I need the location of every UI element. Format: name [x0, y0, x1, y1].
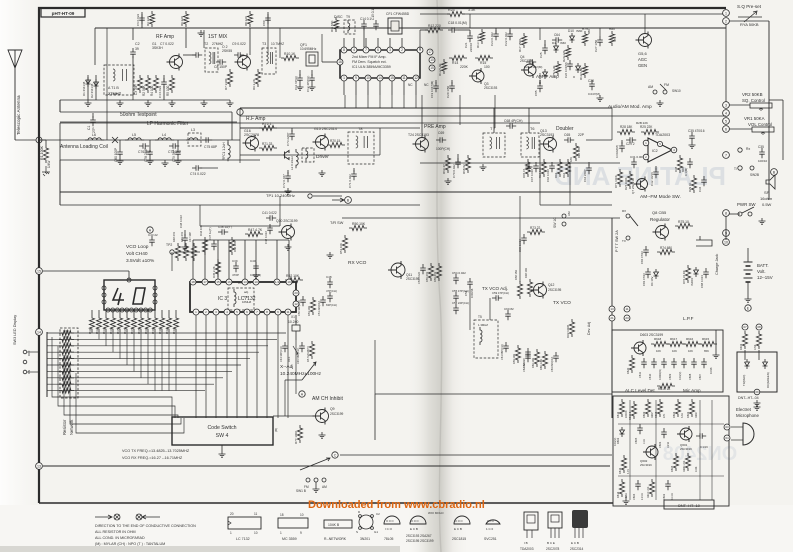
svg-text:A T1 B: A T1 B [108, 86, 119, 90]
capacitor C26 0.01M [567, 60, 573, 70]
resistor R29 1K [691, 175, 696, 193]
svg-text:R14: R14 [452, 61, 458, 65]
svg-text:RYA 50KB: RYA 50KB [740, 22, 759, 27]
capacitor C80 100P [119, 140, 121, 148]
svg-text:12: 12 [414, 76, 418, 80]
svg-text:R76 33 D9: R76 33 D9 [682, 270, 686, 284]
coil L6 [85, 138, 104, 140]
battery symbol [744, 261, 753, 263]
svg-text:9: 9 [355, 76, 357, 80]
svg-text:C71 0.022: C71 0.022 [348, 174, 352, 188]
svg-text:S.Q Pre-set: S.Q Pre-set [737, 4, 762, 9]
svg-text:ALC Level Det.: ALC Level Det. [625, 388, 656, 393]
svg-text:TX VCO: TX VCO [553, 300, 571, 306]
ground code switch [221, 445, 223, 451]
capacitor C39 470P [233, 262, 239, 272]
svg-text:08: 08 [757, 325, 761, 329]
svg-text:2SK55: 2SK55 [222, 49, 232, 53]
node 1 connector [723, 10, 730, 17]
svg-text:C22 0.022: C22 0.022 [504, 32, 508, 46]
svg-text:R.F Amp: R.F Amp [246, 116, 266, 122]
svg-text:C611: C611 [638, 371, 642, 378]
IC1 top pins [341, 47, 347, 53]
svg-text:Volt.: Volt. [757, 269, 766, 274]
svg-text:C19 0.047(M): C19 0.047(M) [430, 81, 434, 98]
svg-text:C8 150P: C8 150P [214, 65, 228, 69]
svg-text:Doubler: Doubler [556, 126, 574, 132]
resistor R27 100K [627, 171, 632, 189]
capacitor C19 0.047M [435, 80, 437, 84]
diode zener D [576, 63, 581, 73]
resistor R45 2.2K [215, 259, 220, 277]
svg-text:D5 SVC25(Y): D5 SVC25(Y) [306, 346, 310, 362]
capacitor C12 4P [311, 70, 313, 76]
transformer T2 27MHZ [205, 48, 218, 72]
svg-text:C68 4P(CH): C68 4P(CH) [504, 119, 522, 123]
svg-text:R403: R403 [739, 343, 743, 350]
svg-text:1: 1 [343, 76, 345, 80]
svg-text:C45 56P(CH ): C45 56P(CH ) [296, 348, 300, 364]
svg-text:R23: R23 [448, 8, 455, 12]
svg-text:OFF: OFF [27, 350, 31, 356]
capacitor C74 0.022 [192, 165, 202, 171]
svg-text:1ST MIX: 1ST MIX [208, 34, 228, 40]
svg-text:R62: R62 [562, 172, 566, 178]
svg-text:G5,6: G5,6 [638, 51, 647, 56]
svg-text:R27 100K: R27 100K [624, 177, 628, 190]
svg-text:2SC3193: 2SC3193 [540, 133, 554, 137]
svg-text:C43 22: C43 22 [148, 233, 158, 237]
svg-text:27P: 27P [92, 127, 96, 133]
svg-text:X1: X1 [291, 315, 295, 319]
svg-text:C11 6P(H): C11 6P(H) [294, 76, 298, 90]
svg-text:16: 16 [227, 280, 231, 284]
svg-text:R29 1K: R29 1K [688, 183, 692, 192]
node A2 [299, 391, 305, 397]
svg-text:0.1/16: 0.1/16 [700, 445, 708, 449]
svg-text:C72 0.047: C72 0.047 [282, 174, 286, 188]
svg-text:27MHZ: 27MHZ [108, 91, 122, 96]
capacitor C75 68P [202, 137, 212, 143]
svg-text:R606 1.5K: R606 1.5K [683, 460, 686, 472]
svg-text:MC 3559: MC 3559 [282, 537, 297, 541]
svg-text:Regulator: Regulator [650, 217, 670, 222]
varicap cluster R48 R49 C47 [175, 243, 180, 261]
svg-text:R6 220: R6 220 [180, 16, 184, 26]
capacitor C70 0.022 [455, 158, 461, 168]
svg-text:13: 13 [610, 307, 614, 311]
node 7 connector [723, 152, 730, 159]
svg-text:14: 14 [378, 76, 382, 80]
LPF block box [612, 330, 723, 392]
svg-text:C62 220: C62 220 [522, 362, 526, 372]
svg-text:AM: AM [648, 85, 653, 89]
svg-text:C28: C28 [588, 79, 594, 83]
svg-text:15: 15 [37, 269, 41, 273]
svg-text:R8 220: R8 220 [244, 16, 248, 26]
wire battery [725, 216, 727, 240]
svg-text:Q10 2SC3199: Q10 2SC3199 [276, 219, 298, 223]
svg-text:2SC2078: 2SC2078 [546, 547, 560, 551]
svg-text:TX: TX [622, 239, 626, 243]
svg-text:100K: 100K [63, 335, 69, 339]
svg-text:C47 39P: C47 39P [188, 232, 192, 242]
resistor R68 82 [465, 155, 470, 173]
svg-text:47K: 47K [613, 37, 617, 42]
capacitor C72 0.047 [287, 170, 289, 174]
node antenna feed [36, 137, 42, 143]
svg-text:C60 82: C60 82 [504, 307, 514, 311]
svg-text:AM: AM [567, 211, 571, 216]
capacitor C49 63P [327, 292, 333, 302]
svg-text:0.01(M): 0.01(M) [679, 372, 682, 380]
svg-text:R26 18K: R26 18K [577, 147, 581, 158]
svg-text:AM: AM [322, 485, 327, 489]
svg-text:C603: C603 [658, 441, 662, 448]
capacitor C59 47P [492, 295, 502, 301]
svg-text:R12 220: R12 220 [428, 24, 441, 28]
svg-text:L4: L4 [162, 133, 166, 137]
bottom mic parts [619, 479, 624, 497]
svg-text:6.8K: 6.8K [625, 493, 628, 498]
RX VCO adj box T4 [228, 288, 254, 310]
svg-text:3.3K: 3.3K [681, 413, 684, 418]
resistor R9 2.2K [255, 69, 260, 87]
package LC7132 [228, 517, 261, 529]
capacitor C601 [696, 433, 706, 439]
svg-text:T24 2SC3193: T24 2SC3193 [408, 133, 429, 137]
capacitor C4 0.022 [161, 78, 167, 88]
node B arrow [345, 197, 352, 204]
svg-text:R58 15K: R58 15K [514, 270, 518, 280]
diode D4 IN60 [554, 43, 559, 53]
IC3 LC7132 body [190, 282, 296, 312]
svg-text:Volt CH40: Volt CH40 [126, 251, 148, 257]
mic block inner wires [618, 423, 724, 425]
svg-text:20: 20 [230, 512, 234, 516]
VR1 pot [752, 127, 774, 132]
svg-text:16: 16 [338, 60, 342, 64]
svg-text:C31 0.001: C31 0.001 [630, 155, 644, 159]
resistor R73 22 [527, 229, 545, 234]
capacitor C23 0.022 [493, 30, 499, 40]
microphone symbol [743, 423, 754, 445]
svg-text:Telescopic Antenna: Telescopic Antenna [16, 95, 21, 135]
IC1 bottom pins [341, 75, 347, 81]
svg-text:R13 3.3K: R13 3.3K [476, 35, 480, 48]
svg-text:RY1 100K: RY1 100K [614, 175, 618, 188]
code switch SW4 box [172, 417, 273, 445]
resistor R13b 5.6K [441, 59, 446, 74]
svg-text:C607: C607 [698, 373, 702, 380]
svg-text:C74 0.022: C74 0.022 [190, 172, 206, 176]
svg-text:O O O: O O O [386, 519, 394, 523]
svg-text:65K: 65K [704, 349, 709, 353]
svg-text:FM Dem. Squelch ect.: FM Dem. Squelch ect. [352, 60, 387, 64]
svg-text:C38 0.022: C38 0.022 [179, 215, 183, 228]
resistor R8 220 [247, 11, 252, 27]
svg-text:50ohm Testpoint: 50ohm Testpoint [120, 112, 157, 118]
capacitor C77 39P [169, 143, 179, 149]
svg-text:R603: R603 [686, 411, 690, 418]
svg-text:47P(CH): 47P(CH) [326, 289, 337, 293]
svg-text:E C B: E C B [410, 527, 418, 531]
capacitor C73 220P [291, 128, 293, 132]
svg-text:4.7K: 4.7K [627, 469, 630, 474]
resistor R44 10K [202, 237, 207, 255]
VR2 pot [729, 104, 750, 106]
transistor G5,6 AGC [639, 34, 652, 47]
capacitor C53 0.022 [420, 264, 426, 274]
wire preamp verticals [421, 108, 423, 137]
svg-text:C70 0.022: C70 0.022 [452, 164, 456, 178]
resistor R69 47 [445, 155, 450, 173]
wire band2 rails [240, 107, 612, 109]
svg-text:C39: C39 [232, 259, 238, 263]
svg-text:10: 10 [300, 513, 304, 517]
svg-text:SP: SP [764, 190, 770, 195]
svg-text:VCO RX FREQ.=16.27 --16.71MH: VCO RX FREQ.=16.27 --16.71MHZ [122, 456, 183, 460]
svg-text:T6: T6 [530, 127, 534, 131]
svg-text:470P: 470P [232, 273, 239, 277]
transistor Q13 2SC3193 doubler [544, 138, 557, 151]
svg-text:C59 47P(CH): C59 47P(CH) [492, 291, 509, 295]
svg-text:R74 680: R74 680 [660, 246, 672, 250]
svg-text:R610 1.5K: R610 1.5K [647, 486, 650, 498]
capacitor C55 47P [453, 292, 459, 302]
capacitor C41 0.022 [266, 215, 276, 221]
resistor R14 220K [449, 55, 467, 60]
ground rail front end [60, 99, 230, 101]
svg-text:DNT--HT--10: DNT--HT--10 [678, 504, 700, 508]
resistor R7 330K [227, 69, 232, 87]
matrix horizontal wires [47, 332, 286, 334]
svg-text:C65: C65 [564, 133, 570, 137]
svg-text:R65 47: R65 47 [522, 169, 526, 178]
capacitor C82 47/16 [643, 246, 649, 256]
svg-text:3.5Volt ±10%: 3.5Volt ±10% [126, 258, 155, 264]
svg-text:100: 100 [484, 65, 490, 69]
svg-text:3.5K: 3.5K [753, 344, 757, 350]
svg-text:09: 09 [755, 390, 759, 394]
svg-text:13: 13 [37, 464, 41, 468]
svg-text:3: 3 [725, 103, 727, 107]
svg-text:R607: R607 [651, 412, 654, 418]
transistor G15 2SC2314 driver [316, 136, 329, 149]
svg-text:0.0022(M): 0.0022(M) [659, 369, 662, 380]
svg-text:O O O: O O O [487, 520, 494, 523]
svg-text:R602: R602 [695, 412, 698, 418]
svg-text:adj.: adj. [244, 290, 249, 294]
capacitor C35b 100/10 [759, 148, 765, 158]
svg-text:R52 10K: R52 10K [286, 274, 300, 278]
svg-text:2: 2 [401, 48, 403, 52]
svg-text:R80: R80 [609, 27, 615, 31]
capacitor C65 22P [564, 137, 574, 143]
svg-text:R--NETWORK: R--NETWORK [324, 537, 347, 541]
wire IF rail [280, 27, 540, 29]
mic bias parts [621, 455, 626, 473]
resistor R17 150K [521, 33, 526, 48]
node E [745, 305, 751, 311]
capacitor C605 [637, 424, 643, 434]
svg-text:D1 IN4148: D1 IN4148 [82, 81, 86, 96]
svg-text:18: 18 [191, 280, 195, 284]
svg-text:11: 11 [254, 512, 258, 516]
IC3 top pins [190, 279, 196, 285]
svg-text:ALL COND. IN MICROFARAD: ALL COND. IN MICROFARAD [95, 536, 145, 540]
svg-text:C9 0.022: C9 0.022 [232, 42, 246, 46]
svg-text:D10: D10 [568, 29, 574, 33]
svg-text:C: C [334, 453, 337, 457]
ground q10 [327, 252, 334, 258]
svg-text:C21: C21 [464, 42, 468, 48]
svg-text:C61 68P(CH): C61 68P(CH) [500, 344, 504, 360]
svg-text:TDA2003: TDA2003 [520, 547, 534, 551]
svg-text:Microphone: Microphone [736, 413, 759, 418]
capacitor C78 220P [149, 140, 151, 148]
svg-text:13: 13 [243, 280, 247, 284]
resistor R2 56K [145, 75, 150, 93]
svg-text:AM--FM Mode SW.: AM--FM Mode SW. [640, 194, 681, 200]
svg-text:100K: 100K [63, 348, 69, 352]
transistor Q4 2SC3193 [524, 64, 536, 76]
svg-text:C605: C605 [634, 437, 638, 444]
svg-text:R38: R38 [674, 166, 678, 172]
svg-text:C82 47/16: C82 47/16 [640, 251, 644, 264]
svg-text:T/R SW: T/R SW [330, 221, 344, 225]
capacitor C30 10/16 [521, 234, 527, 244]
resistor R77 100K [297, 425, 302, 443]
svg-text:VCO TX FREQ.=13.4825--13.702: VCO TX FREQ.=13.4825--13.7025MHZ [122, 449, 190, 453]
svg-text:Downloaded from www.cbradio.nl: Downloaded from www.cbradio.nl [308, 499, 485, 511]
svg-text:Q12: Q12 [548, 283, 555, 287]
capacitor C64b [552, 37, 562, 43]
svg-text:R4 100: R4 100 [150, 85, 154, 96]
svg-text:C24 0.022(M): C24 0.022(M) [524, 65, 542, 69]
pot RY1 100K [617, 169, 622, 187]
svg-text:6: 6 [377, 48, 379, 52]
matrix vertical wires from resistors [91, 332, 93, 333]
coil L3 box [188, 133, 201, 146]
svg-text:C40: C40 [250, 259, 256, 263]
resistor R50 10K [349, 225, 367, 230]
svg-text:C83 47/16: C83 47/16 [642, 273, 646, 286]
svg-text:C14 0.1: C14 0.1 [360, 17, 371, 21]
svg-text:SW 1C: SW 1C [553, 217, 557, 228]
transistor Q14 2SC3193 pre amp [416, 138, 429, 151]
svg-text:O O O: O O O [411, 519, 419, 523]
svg-text:IN60: IN60 [560, 41, 566, 45]
svg-text:TX(RED): TX(RED) [742, 375, 746, 386]
svg-text:R77 100K: R77 100K [294, 431, 298, 444]
svg-text:(M) : MYLAR (CH) : NPO (: (M) : MYLAR (CH) : NPO (T ) : TANTALUM [95, 542, 165, 546]
svg-text:1: 1 [230, 531, 232, 535]
capacitor C42 0.022 [267, 224, 273, 234]
transistor Q10 2SC3199 [282, 226, 295, 239]
lower caps row [525, 352, 531, 362]
svg-text:C29 2: C29 2 [626, 142, 635, 146]
svg-text:C37 1u(T): C37 1u(T) [208, 227, 212, 240]
svg-text:2SC3199: 2SC3199 [640, 463, 652, 467]
svg-text:R2B 22K: R2B 22K [636, 121, 648, 125]
resistor R59 10K [515, 345, 520, 363]
svg-text:SW10: SW10 [672, 89, 681, 93]
IC1 ULN3859A/MC3359 body [340, 50, 420, 78]
node 2 connector [723, 18, 730, 25]
svg-text:C609: C609 [668, 373, 672, 380]
svg-text:R609: R609 [642, 411, 646, 418]
capacitor C33 0.1M [687, 158, 693, 168]
resistor R47 4.7K [245, 231, 263, 236]
svg-text:C604: C604 [632, 493, 636, 500]
svg-text:IN4001: IN4001 [690, 277, 694, 286]
resistor R19 6.8K [582, 63, 587, 78]
svg-text:3.3K: 3.3K [694, 466, 698, 472]
resistor R11 56K [333, 17, 338, 32]
svg-text:C35: C35 [758, 145, 764, 149]
capacitor C79 33P [177, 140, 179, 148]
svg-text:8: 8 [725, 211, 727, 215]
resistor R3 33K [149, 11, 154, 27]
svg-text:C44 39P(CH): C44 39P(CH) [279, 346, 283, 362]
wire verticals lower [344, 95, 346, 108]
wire node15 to display [36, 268, 43, 275]
svg-text:C2: C2 [135, 42, 140, 46]
svg-text:C64 220P: C64 220P [583, 169, 587, 182]
capacitor C21 220/10 [469, 30, 471, 34]
resistor R15 100 [475, 55, 493, 60]
svg-text:L2 0.39uH: L2 0.39uH [290, 156, 294, 170]
capacitor C43 22 [149, 236, 155, 246]
svg-text:C88 0.033: C88 0.033 [700, 275, 704, 288]
resistor R26 18K [573, 143, 578, 161]
svg-text:VR1 50KA: VR1 50KA [744, 116, 765, 121]
svg-text:RV2 10KB: RV2 10KB [566, 325, 570, 338]
capacitor C56 22P [453, 304, 459, 314]
svg-text:R71 33: R71 33 [262, 142, 273, 146]
wire long mid [375, 393, 612, 395]
svg-text:1: 1 [725, 11, 727, 15]
capacitor C25 [544, 40, 546, 46]
wire node13 line [43, 465, 610, 467]
svg-text:3N201: 3N201 [360, 537, 370, 541]
node 8 [723, 210, 730, 217]
capacitor C1 27P [92, 113, 94, 118]
capacitor C34 [701, 176, 707, 186]
capacitor C2 39 [132, 28, 134, 40]
capacitor C61 68P [503, 342, 509, 352]
svg-text:R56 47K: R56 47K [433, 272, 437, 282]
svg-text:DIRECTION TO THE END OF C: DIRECTION TO THE END OF CONDUCTIVE CONNE… [95, 524, 196, 528]
diode D602 [620, 427, 625, 437]
svg-text:22P: 22P [578, 133, 585, 137]
svg-text:R617: R617 [670, 337, 678, 341]
diodes D1 D2 IN4148 [87, 75, 89, 100]
svg-text:R5 100: R5 100 [166, 85, 170, 96]
package 3N201 [359, 515, 373, 529]
svg-text:18: 18 [280, 513, 284, 517]
svg-text:03: 03 [725, 425, 729, 429]
svg-text:2SC2078: 2SC2078 [244, 133, 259, 137]
svg-text:VCO Loop: VCO Loop [126, 244, 149, 250]
svg-text:R80 1.8K: R80 1.8K [539, 359, 543, 370]
telescopic antenna [8, 50, 22, 140]
package MC3559 [278, 518, 308, 528]
svg-text:39: 39 [135, 47, 139, 51]
wire bus horizontals mid [60, 159, 260, 161]
wire top rail [95, 27, 726, 29]
